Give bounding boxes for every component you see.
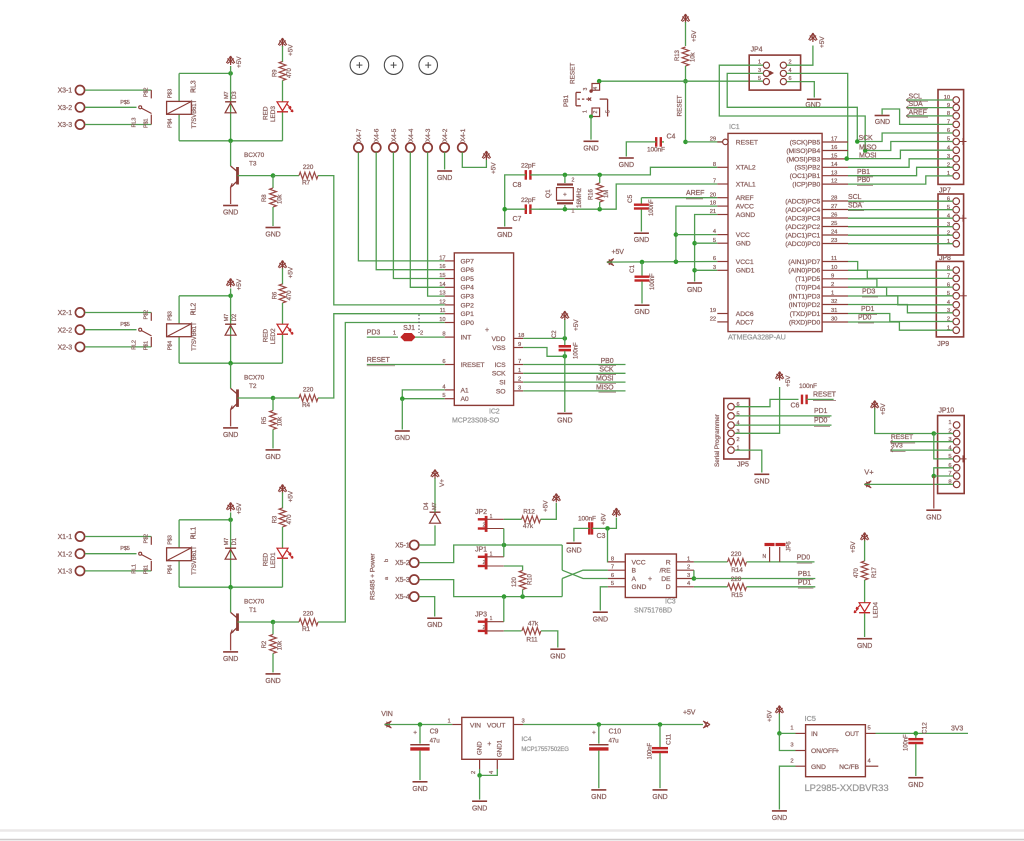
svg-text:GP7: GP7 [461,258,475,265]
svg-text:VIN: VIN [381,711,392,718]
svg-text:3: 3 [518,385,521,391]
svg-text:+: + [592,730,596,737]
svg-text:AREF: AREF [736,195,754,202]
svg-text:(T0)PD4: (T0)PD4 [795,285,820,292]
svg-text:T3: T3 [249,161,257,168]
svg-text:AGND: AGND [736,212,755,219]
svg-text:1: 1 [948,420,951,426]
svg-text:GND: GND [566,548,581,555]
svg-text:RED: RED [263,553,270,567]
svg-text:GND: GND [634,237,649,244]
svg-text:SDA: SDA [909,101,924,108]
svg-text:R14: R14 [731,567,743,574]
svg-text:100nF: 100nF [578,515,596,522]
svg-text:X2-2: X2-2 [58,327,73,334]
svg-text:220: 220 [303,386,314,393]
svg-text:VDD: VDD [491,336,505,343]
svg-text:LED2: LED2 [270,328,277,344]
svg-text:2: 2 [518,377,521,383]
svg-text:T7SVB61T: T7SVB61T [192,100,198,129]
svg-text:47u: 47u [609,737,620,744]
svg-text:47k: 47k [528,620,539,627]
svg-text:GND: GND [583,145,598,152]
svg-text:+5V: +5V [236,56,243,68]
svg-text:VIN: VIN [470,722,481,729]
svg-text:GND: GND [908,782,923,789]
svg-text:+: + [648,576,652,583]
svg-text:(INT0)PD2: (INT0)PD2 [789,302,821,309]
svg-text:3: 3 [790,743,793,749]
svg-text:GP5: GP5 [461,276,475,283]
svg-text:SCK: SCK [599,367,614,374]
svg-text:SDA: SDA [848,202,863,209]
svg-text:470: 470 [287,290,293,300]
svg-text:OUT: OUT [845,731,859,738]
svg-text:X2-1: X2-1 [58,310,73,317]
svg-text:ATMEGA328P-AU: ATMEGA328P-AU [728,333,786,342]
svg-text:+5V: +5V [236,502,243,514]
svg-text:2: 2 [483,560,486,566]
svg-text:VCC: VCC [632,559,646,566]
svg-text:19: 19 [710,308,716,314]
svg-text:(ICP)PB0: (ICP)PB0 [792,182,820,189]
svg-text:M7: M7 [432,503,438,510]
svg-text:+: + [835,748,839,755]
svg-text:100nF: 100nF [648,743,654,760]
svg-text:+5V: +5V [288,266,295,278]
svg-text:(ADC4)PC4: (ADC4)PC4 [785,207,820,214]
svg-text:GND: GND [497,232,512,239]
svg-text:1: 1 [572,209,575,215]
svg-text:P$3: P$3 [168,311,174,321]
svg-text:1: 1 [583,110,589,113]
svg-text:20: 20 [710,192,716,198]
svg-text:IC2: IC2 [489,409,500,416]
svg-text:100nF: 100nF [799,383,817,390]
svg-text:R2: R2 [262,640,268,648]
svg-text:8: 8 [713,162,716,168]
svg-text:17: 17 [831,137,837,143]
svg-text:SJ1: SJ1 [403,325,415,332]
svg-text:GND: GND [550,654,565,661]
svg-text:SCK: SCK [492,371,506,378]
svg-text:2: 2 [790,758,793,764]
svg-text:3: 3 [687,573,690,579]
svg-text:32: 32 [831,299,837,305]
svg-text:22: 22 [710,317,716,323]
svg-text:INT: INT [461,335,472,342]
svg-text:1: 1 [790,725,793,731]
svg-text:A: A [632,576,637,583]
svg-text:100nF: 100nF [574,342,580,359]
svg-text:(ADC5)PC5: (ADC5)PC5 [785,198,820,205]
svg-text:16MHz: 16MHz [576,188,583,208]
svg-text:+: + [413,730,417,737]
svg-text:5: 5 [605,110,611,113]
svg-text:15: 15 [831,154,837,160]
svg-text:1: 1 [447,719,450,725]
svg-text:23: 23 [831,238,837,244]
svg-text:47u: 47u [430,737,441,744]
svg-text:GND1: GND1 [497,740,504,757]
svg-text:X3-2: X3-2 [58,105,73,112]
svg-text:VOUT: VOUT [487,722,505,729]
svg-text:GP2: GP2 [461,302,475,309]
svg-text:120: 120 [512,577,518,587]
svg-text:P$5: P$5 [120,546,130,552]
svg-text:SCK: SCK [859,135,874,142]
svg-text:(ADC1)PC1: (ADC1)PC1 [785,232,820,239]
svg-text:MOSI: MOSI [596,376,614,383]
svg-text:R9: R9 [273,69,279,77]
svg-text:R5: R5 [262,416,268,424]
svg-text:R13: R13 [675,50,681,61]
svg-text:GND: GND [427,622,442,629]
svg-text:470: 470 [854,568,860,578]
svg-text:GND: GND [265,232,280,239]
svg-text:R6: R6 [273,291,279,299]
svg-text:10k: 10k [691,52,697,62]
svg-text:+: + [563,192,567,199]
svg-text:JP3: JP3 [475,612,487,619]
svg-text:PD0: PD0 [814,417,828,424]
svg-text:+5V: +5V [601,513,608,525]
svg-text:24: 24 [831,230,838,236]
svg-text:GND: GND [754,479,769,486]
svg-text:C4: C4 [667,134,676,141]
svg-text:7: 7 [713,179,716,185]
svg-text:GND: GND [619,162,634,169]
svg-text:RL1: RL1 [191,527,198,540]
svg-text:(ADC0)PC0: (ADC0)PC0 [785,241,820,248]
svg-text:PD1: PD1 [798,579,812,586]
svg-text:+5V: +5V [288,44,295,56]
svg-text:XTAL1: XTAL1 [736,181,756,188]
svg-text:R4: R4 [302,402,311,409]
svg-text:C8: C8 [513,182,522,189]
svg-text:IC3: IC3 [665,599,676,606]
svg-text:2: 2 [420,331,423,337]
svg-text:GP6: GP6 [461,267,475,274]
svg-text:X1-1: X1-1 [58,534,73,541]
svg-text:BCX70: BCX70 [244,598,265,605]
svg-text:JP1: JP1 [475,547,487,554]
svg-text:T1: T1 [249,607,257,614]
svg-text:X1-3: X1-3 [58,569,73,576]
svg-text:GND: GND [926,515,941,522]
svg-text:X4-5: X4-5 [391,128,398,142]
svg-text:SCL: SCL [909,93,923,100]
svg-text:/RE: /RE [659,568,671,575]
svg-text:X3-1: X3-1 [58,88,73,95]
svg-text:X5-4: X5-4 [395,594,410,601]
svg-text:GND: GND [593,617,608,624]
svg-text:X4-1: X4-1 [460,128,467,142]
svg-text:JP10: JP10 [939,408,955,415]
svg-text:M7: M7 [224,92,230,99]
svg-text:GND: GND [412,786,427,793]
svg-text:D: D [666,584,671,591]
svg-text:220: 220 [731,576,742,583]
svg-text:RESET: RESET [677,95,684,116]
svg-text:(INT1)PD3: (INT1)PD3 [789,293,821,300]
svg-text:PB0: PB0 [857,177,870,184]
svg-text:1: 1 [490,551,493,557]
svg-text:3: 3 [522,719,525,725]
svg-text:PD0: PD0 [797,554,811,561]
svg-text:ADC7: ADC7 [736,319,754,326]
svg-text:VSS: VSS [492,345,506,352]
svg-text:2: 2 [831,282,834,288]
svg-text:RESET: RESET [813,391,837,398]
svg-text:JP5: JP5 [737,462,749,469]
svg-text:3V3: 3V3 [951,726,963,733]
svg-text:AREF: AREF [686,190,704,197]
svg-text:b: b [384,559,390,562]
svg-text:5: 5 [758,76,761,82]
svg-text:P$3: P$3 [168,535,174,545]
svg-text:ICS: ICS [494,362,506,369]
svg-text:P$4: P$4 [168,341,174,351]
svg-text:10k: 10k [278,194,284,204]
svg-text:GND1: GND1 [736,268,755,275]
svg-text:P$2: P$2 [144,88,150,98]
svg-text:2: 2 [593,111,599,114]
svg-text:(MISO)PB4: (MISO)PB4 [786,148,820,155]
svg-text:X5-1: X5-1 [395,543,410,550]
svg-text:(AIN1)PD7: (AIN1)PD7 [788,259,820,266]
svg-text:VCC1: VCC1 [736,259,754,266]
svg-text:RESET: RESET [367,357,391,364]
svg-text:2: 2 [483,522,486,528]
svg-text:31: 31 [831,308,837,314]
svg-text:X4-7: X4-7 [356,128,363,142]
svg-text:ON/OFF: ON/OFF [811,748,836,755]
svg-text:GND: GND [736,241,751,248]
svg-text:220: 220 [731,551,742,558]
svg-text:V+: V+ [439,479,446,487]
svg-text:21: 21 [710,209,716,215]
svg-text:GP0: GP0 [461,320,475,327]
svg-text:RL1: RL1 [132,564,138,574]
svg-text:(SS)PB2: (SS)PB2 [794,165,820,172]
svg-text:28: 28 [831,196,837,202]
svg-text:+5V: +5V [691,30,698,42]
svg-text:R8: R8 [262,194,268,202]
svg-text:R15: R15 [731,592,743,599]
svg-text:8: 8 [611,556,614,562]
svg-text:X4-3: X4-3 [425,128,432,142]
svg-text:GND: GND [652,794,667,801]
svg-text:R: R [666,559,671,566]
svg-text:RED: RED [263,329,270,343]
svg-text:PD1: PD1 [814,408,828,415]
svg-text:C12: C12 [922,722,929,734]
svg-text:X1-2: X1-2 [58,551,73,558]
svg-text:P$1: P$1 [143,565,149,575]
svg-text:GND: GND [557,418,572,425]
svg-text:13: 13 [831,170,837,176]
svg-text:RESET: RESET [736,139,758,146]
svg-text:R1: R1 [302,626,311,633]
svg-text:C6: C6 [791,403,800,410]
svg-text:P$2: P$2 [144,310,150,320]
svg-text:29: 29 [710,137,716,143]
svg-text:3: 3 [713,265,716,271]
svg-text:C2: C2 [552,330,558,338]
svg-text:N: N [762,554,766,560]
svg-text:LED4: LED4 [873,602,880,618]
svg-text:(MOSI)PB3: (MOSI)PB3 [786,156,820,163]
svg-text:1: 1 [831,291,834,297]
svg-text:18: 18 [710,201,716,207]
svg-text:5: 5 [868,725,871,731]
svg-text:(RXD)PD0: (RXD)PD0 [789,319,821,326]
svg-text:470: 470 [287,514,293,524]
svg-text:MCP17557502EG: MCP17557502EG [521,747,569,753]
svg-text:AREF: AREF [909,109,927,116]
svg-text:1: 1 [490,616,493,622]
svg-text:GND: GND [265,454,280,461]
svg-text:220: 220 [303,164,314,171]
svg-text:2: 2 [687,565,690,571]
svg-text:IN: IN [811,731,818,738]
svg-text:PD3: PD3 [862,289,876,296]
svg-text:+5V: +5V [767,710,774,722]
svg-text:10: 10 [439,317,445,323]
svg-text:X4-2: X4-2 [442,128,449,142]
svg-text:(ADC2)PC2: (ADC2)PC2 [785,224,820,231]
svg-text:+5V: +5V [850,541,857,553]
svg-text:R3: R3 [273,515,279,523]
svg-text:GND: GND [437,175,452,182]
svg-text:VCC: VCC [736,232,750,239]
svg-text:5: 5 [611,581,614,587]
svg-text:25: 25 [831,221,837,227]
svg-text:+: + [487,741,491,748]
svg-text:100nF: 100nF [647,147,665,154]
svg-text:LP2985-XXDBVR33: LP2985-XXDBVR33 [805,783,889,794]
svg-text:X4-4: X4-4 [408,128,415,142]
svg-text:C10: C10 [609,728,622,735]
svg-text:(T1)PD5: (T1)PD5 [795,276,820,283]
svg-text:47k: 47k [523,523,534,530]
svg-text:1: 1 [490,514,493,520]
svg-text:D2: D2 [232,313,238,321]
svg-text:AVCC: AVCC [736,204,754,211]
svg-text:D3: D3 [232,91,238,99]
svg-text:2: 2 [483,625,486,631]
svg-text:100nF: 100nF [650,273,656,290]
svg-text:PB1: PB1 [563,95,570,107]
svg-text:4: 4 [593,87,599,90]
svg-text:A1: A1 [461,387,469,394]
svg-text:R12: R12 [523,509,535,516]
svg-text:SO: SO [496,388,506,395]
svg-text:PB0: PB0 [601,358,614,365]
svg-text:+5V: +5V [573,319,580,331]
svg-text:P$5: P$5 [120,322,130,328]
svg-text:MCP23S08-SO: MCP23S08-SO [452,418,500,425]
svg-text:6: 6 [713,256,716,262]
svg-text:RL2: RL2 [132,340,138,350]
svg-text:RL3: RL3 [191,80,198,93]
svg-text:a: a [384,576,390,580]
svg-text:GND: GND [811,764,826,771]
svg-text:GND: GND [395,435,410,442]
svg-text:22pF: 22pF [521,197,536,204]
svg-text:SCL: SCL [848,194,862,201]
svg-text:PB1: PB1 [798,571,811,578]
svg-text:P$1: P$1 [143,341,149,351]
svg-text:C7: C7 [513,216,522,223]
svg-text:XTAL2: XTAL2 [736,165,756,172]
svg-text:SI: SI [499,380,505,387]
svg-text:+5V: +5V [819,36,826,48]
svg-text:+: + [485,327,489,334]
svg-text:NC/FB: NC/FB [839,764,859,771]
svg-text:GND: GND [875,119,890,126]
svg-text:IC5: IC5 [805,714,816,723]
svg-text:B: B [632,568,637,575]
svg-text:1M: 1M [604,190,610,198]
svg-text:GND: GND [477,741,484,755]
svg-text:3: 3 [583,88,589,91]
svg-text:P$1: P$1 [143,118,149,128]
svg-text:13: 13 [439,291,445,297]
svg-text:JP6: JP6 [787,541,793,552]
svg-text:D4: D4 [424,502,430,510]
svg-text:9: 9 [518,342,521,348]
svg-text:C9: C9 [430,728,439,735]
svg-text:JP4: JP4 [751,47,763,54]
svg-text:(AIN0)PD6: (AIN0)PD6 [788,268,820,275]
svg-text:SN75176BD: SN75176BD [634,608,672,615]
svg-text:GP1: GP1 [461,311,475,318]
svg-text:GND: GND [472,806,487,813]
svg-text:14: 14 [831,162,838,168]
svg-text:GP4: GP4 [461,285,475,292]
svg-text:11: 11 [440,308,446,314]
svg-text:IC4: IC4 [521,736,531,743]
svg-text:4: 4 [868,758,872,764]
svg-text:220: 220 [303,610,314,617]
svg-text:GND: GND [265,678,280,685]
svg-text:GND: GND [857,643,872,650]
svg-text:PD0: PD0 [858,315,872,322]
svg-text:PB1: PB1 [857,169,870,176]
svg-text:+5V: +5V [543,500,550,512]
svg-text:(TXD)PD1: (TXD)PD1 [790,311,821,318]
svg-text:RS485 + Power: RS485 + Power [370,553,377,600]
svg-text:X5-2: X5-2 [395,560,410,567]
svg-text:(SCK)PB5: (SCK)PB5 [790,139,821,146]
svg-text:1: 1 [393,331,396,337]
svg-text:!RESET: !RESET [461,362,485,369]
svg-text:+5V: +5V [491,162,498,174]
svg-text:C3: C3 [597,533,606,540]
svg-text:10k: 10k [278,416,284,426]
svg-text:P$4: P$4 [168,118,174,128]
svg-text:A0: A0 [461,396,469,403]
svg-text:GND: GND [591,794,606,801]
svg-text:R10: R10 [528,574,534,585]
svg-text:GND: GND [223,656,238,663]
svg-text:26: 26 [831,213,837,219]
svg-text:RL2: RL2 [191,303,198,316]
svg-text:PD3: PD3 [367,330,381,337]
svg-text:+5V: +5V [880,403,887,415]
